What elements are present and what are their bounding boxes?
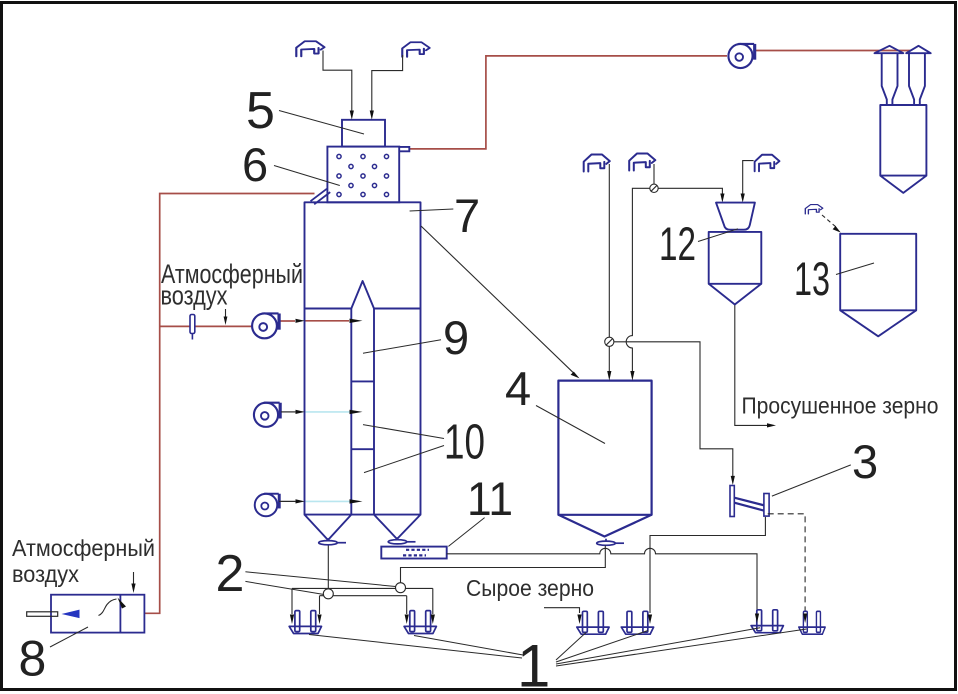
leader label 9: [363, 340, 441, 354]
arrow into boot A left: [290, 615, 294, 625]
flame swirl arrow: [99, 599, 117, 616]
dryer shaft body 7: [305, 202, 421, 514]
grain level line right: [374, 308, 421, 310]
leader label 10 lower: [364, 446, 444, 473]
cassette divider 10b: [351, 448, 374, 450]
fan V4 top right: [728, 44, 754, 68]
hood M1: [584, 155, 610, 172]
svg-text:8: 8: [19, 631, 47, 687]
slide gate left funnel: [319, 538, 346, 545]
svg-text:6: 6: [242, 138, 268, 191]
svg-text:7: 7: [454, 189, 480, 242]
slide gate right funnel: [388, 537, 415, 544]
svg-text:12: 12: [659, 217, 696, 270]
cyclone cap right: [906, 46, 931, 53]
wire upper distribution A-left B-right: [292, 588, 433, 614]
arrow air into furnace: [133, 572, 135, 584]
svg-text:3: 3: [852, 435, 878, 488]
wire tank 4 gate down: [401, 546, 606, 583]
cyclone body: [880, 105, 926, 176]
inner duct left wall: [350, 309, 352, 515]
cassette divider 10a: [351, 380, 374, 382]
arrow into boot F: [803, 614, 807, 624]
wire red: fan V1 outlet: [279, 320, 295, 322]
wire cyan level 3: [306, 500, 351, 502]
damper on air intake: [190, 315, 195, 340]
leader label 6: [274, 166, 340, 186]
boot E: [751, 610, 783, 633]
arrow into boot A right: [317, 615, 321, 625]
leader label 8: [50, 627, 88, 647]
arrow flow tower to tank 4: [421, 226, 575, 374]
arrow into box5 left: [350, 111, 354, 120]
hot gas inlet stub: [311, 189, 331, 205]
furnace box 8: [51, 595, 144, 633]
outlet tab of chamber 6: [399, 147, 409, 151]
inner duct right wall: [373, 309, 375, 515]
leader label 7: [410, 209, 454, 211]
boot C: [577, 611, 609, 634]
svg-text:4: 4: [505, 362, 531, 415]
two-way valve 3: [730, 486, 769, 517]
leader label 10 upper: [363, 425, 444, 439]
svg-text:10: 10: [444, 416, 485, 470]
arrow into box5 right: [370, 111, 374, 120]
wire lower distribution A-right B-left: [320, 596, 407, 614]
leader label 1 to boot D: [556, 631, 648, 663]
wire hood M1 down to tank 4: [608, 164, 610, 373]
arrow into boot E: [755, 614, 759, 624]
leader label 2 to junction B: [245, 581, 324, 594]
arrows into boots: [290, 614, 807, 625]
arrow dried grain outlet: [767, 423, 776, 427]
mixing chamber 6: [311, 147, 410, 205]
arrow level3 at inner duct: [350, 499, 363, 503]
leader label 2 to junction C: [245, 572, 395, 587]
svg-text:Просушенное зерно: Просушенное зерно: [742, 393, 939, 419]
hopper 12 cone: [709, 284, 762, 305]
hopper 12 inlet funnel: [716, 203, 755, 230]
wire hood M3 into hopper 12: [743, 161, 754, 196]
arrow level1 at inner duct: [350, 319, 363, 323]
svg-text:1: 1: [517, 633, 550, 694]
wire junction J2 left and down with jump over line: [626, 188, 650, 372]
tank 13 body: [840, 234, 916, 310]
wire from hood T1 to box 5: [323, 51, 403, 113]
boot A: [289, 611, 321, 634]
cyclone tube right: [909, 53, 925, 105]
hood T2: [402, 42, 429, 57]
fan V1: [252, 313, 279, 338]
left discharge funnel: [305, 515, 352, 540]
vibro feeder 11: [381, 547, 446, 559]
hopper 12 body: [709, 232, 762, 284]
cyclone cone: [880, 176, 926, 193]
wire red: inside tower level 1: [305, 320, 349, 322]
leader label 1 to boot E: [556, 628, 760, 664]
tank 13 cone: [840, 310, 916, 336]
boot F: [799, 611, 825, 634]
wire red: fan V4 to twin cyclone: [755, 50, 912, 52]
arrow level3 at wall: [296, 499, 305, 503]
svg-text:воздух: воздух: [161, 281, 228, 311]
wire left funnel gate to junction B: [327, 546, 329, 590]
fan V2: [254, 403, 280, 427]
furnace divider: [119, 595, 121, 633]
grain level line left: [305, 308, 352, 310]
hood near 13: [805, 205, 822, 214]
svg-text:Сырое зерно: Сырое зерно: [466, 575, 594, 601]
arrows into hopper 12: [720, 194, 724, 203]
wire junction J2 right into hopper 12: [658, 188, 722, 195]
leader label 1 to boot B: [414, 636, 523, 656]
wire hood M2 down to junction: [653, 164, 655, 184]
leader label 4: [536, 406, 605, 444]
arrow into boot C: [577, 615, 581, 625]
svg-text:13: 13: [794, 252, 830, 305]
leader label 3: [772, 465, 851, 496]
svg-text:воздух: воздух: [12, 561, 79, 587]
inner duct roof peak 9: [351, 281, 374, 309]
arrow into boot B right: [431, 615, 435, 625]
arrow into valve 3: [731, 476, 735, 485]
boot D: [621, 611, 653, 634]
wire cyan level 2: [306, 411, 351, 413]
junction circle C: [396, 583, 406, 593]
fan V3: [255, 494, 280, 517]
wire valve 3 solid outlet to boot D: [650, 517, 765, 613]
arrows into tank 4 top: [607, 371, 611, 381]
svg-text:5: 5: [246, 82, 275, 140]
fan V2 outlet line: [281, 411, 296, 413]
hood M2: [629, 154, 655, 171]
burner flame: [62, 610, 80, 619]
wire red: exhaust from chamber 6 to fan V4: [409, 56, 727, 149]
right discharge funnel: [374, 515, 421, 539]
leader label 1 to boot A: [309, 635, 522, 659]
wire red: furnace riser left: [144, 194, 314, 614]
fuel pipe: [27, 612, 58, 617]
arrow into boot D: [648, 615, 652, 625]
wire red: branch to fan V1: [160, 325, 252, 327]
slide gate tank 4: [597, 539, 624, 546]
feed box 5: [342, 120, 385, 147]
boot B: [404, 611, 436, 634]
hood M3: [755, 155, 780, 171]
junction circle B: [323, 589, 333, 599]
leader label 1 to boot C: [556, 633, 586, 661]
leader label 12: [698, 229, 738, 242]
arrows fan outlets into tower: [296, 319, 363, 504]
hood T1: [296, 41, 324, 56]
svg-text:11: 11: [467, 472, 513, 525]
dashed leader hood to tank 13: [822, 215, 836, 227]
svg-text:2: 2: [216, 545, 245, 603]
leader label 1 to boot F: [556, 629, 807, 666]
arrow level2 at inner duct: [350, 410, 363, 414]
cyclone tube left: [882, 53, 898, 105]
leader label 13: [836, 263, 874, 275]
tank 4 body: [558, 381, 651, 515]
svg-text:9: 9: [443, 311, 469, 364]
junction circle J2 with slash: [650, 184, 658, 192]
arrow level2 at wall: [296, 410, 305, 414]
cyclone cap left: [875, 46, 904, 53]
tank 4 cone: [558, 515, 651, 537]
fan V3 outlet line: [279, 500, 296, 502]
svg-text:Атмосферный: Атмосферный: [12, 535, 155, 561]
arrow level1 at wall: [296, 319, 305, 323]
air intake tick arrow: [225, 309, 227, 318]
wire raw grain inlet to boot C: [544, 608, 580, 613]
arrow into boot B left: [405, 615, 409, 625]
perforation dots of chamber 6: [337, 154, 389, 196]
leader label 5: [279, 111, 364, 135]
wire hopper 12 outlet dried grain: [735, 305, 769, 426]
wire from junction circle J1 to valve 3: [614, 342, 733, 477]
wire valve 3 dashed outlet to boot F: [768, 514, 805, 612]
wire feeder 11 to boot E with jumps: [447, 548, 757, 613]
leader label 11: [448, 518, 484, 547]
junction circle J1 with slash: [605, 337, 614, 346]
